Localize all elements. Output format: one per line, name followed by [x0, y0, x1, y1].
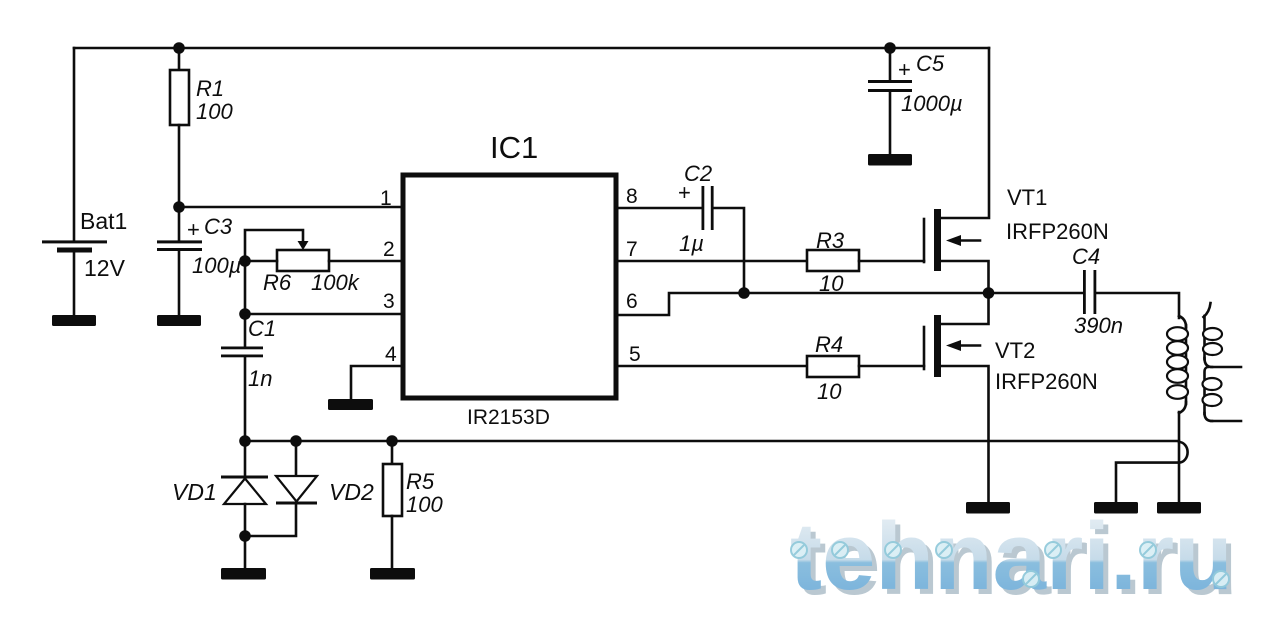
svg-text:1µ: 1µ [679, 231, 704, 256]
wire R6 left lead [245, 260, 277, 263]
capacitor C1 [221, 347, 263, 358]
R6 wiper arrowhead [298, 241, 309, 250]
wire C5 top lead [889, 48, 892, 81]
svg-text:1: 1 [380, 187, 392, 210]
wire R5 top lead [391, 441, 394, 464]
svg-text:100k: 100k [311, 270, 360, 295]
svg-text:IRFP260N: IRFP260N [1006, 219, 1109, 244]
svg-text:C3: C3 [204, 214, 233, 239]
capacitor C3 [157, 240, 202, 251]
wire C1 bottom lead [244, 357, 247, 441]
svg-text:100: 100 [196, 99, 233, 124]
wire secondary middle lead [1211, 366, 1241, 369]
watermark badges [791, 542, 1229, 587]
resistor R5 [383, 464, 402, 516]
ground C5 [868, 154, 912, 166]
svg-text:C4: C4 [1072, 244, 1100, 269]
wire R3 to VT1 gate [859, 260, 924, 263]
wire pin 7 [616, 260, 807, 263]
svg-text:C1: C1 [248, 316, 276, 341]
svg-text:VD1: VD1 [172, 479, 217, 505]
IC U1 IR2153D [403, 175, 616, 398]
node junction R1/C3/pin1 [173, 201, 185, 213]
svg-text:R3: R3 [816, 228, 845, 253]
transformer T1 secondary [1203, 303, 1223, 421]
svg-text:R5: R5 [406, 469, 435, 494]
svg-text:3: 3 [383, 290, 395, 313]
potentiometer R6 [277, 250, 329, 271]
capacitor C5 [868, 80, 912, 92]
svg-text:100µ: 100µ [192, 253, 241, 278]
node junction bus/VD2 [290, 435, 302, 447]
svg-text:5: 5 [629, 343, 641, 366]
ground R5 [370, 568, 415, 580]
wire vertical R6 to pin3/C1 [244, 261, 247, 347]
transistor Q1 VT1 [924, 209, 989, 293]
wire top supply rail [74, 47, 989, 50]
svg-text:C5: C5 [916, 51, 945, 76]
wire VD2 top lead [295, 441, 298, 476]
svg-text:10: 10 [817, 379, 842, 404]
svg-text:7: 7 [626, 238, 638, 261]
capacitor C4 [1083, 270, 1096, 314]
svg-text:R4: R4 [815, 332, 843, 357]
svg-text:4: 4 [385, 343, 397, 366]
wire pin 1 [179, 206, 403, 209]
wire VD1 top lead [244, 441, 247, 476]
wire bottom bus [245, 440, 1179, 443]
svg-text:12V: 12V [84, 255, 126, 281]
wire secondary bottom lead [1211, 420, 1241, 423]
wire pin 8 [616, 207, 702, 210]
diode VD1 [221, 476, 268, 505]
wire VD2 bottom lead [245, 504, 296, 536]
ground VD1 [221, 568, 266, 580]
node junction top rail / R1 [173, 42, 185, 54]
svg-text:VT1: VT1 [1007, 185, 1047, 210]
ground VT2 source [966, 502, 1010, 514]
svg-text:IRFP260N: IRFP260N [995, 369, 1098, 394]
wire ground branch left [1116, 463, 1179, 502]
wire transformer primary bottom to ground [1178, 412, 1181, 502]
ground branch bar [1094, 502, 1138, 514]
resistor R1 [170, 70, 189, 125]
svg-text:tehnari.ru: tehnari.ru [790, 503, 1233, 610]
node junction top rail / C5 [884, 42, 896, 54]
svg-text:VT2: VT2 [995, 338, 1035, 363]
wire VD1 bottom lead [244, 504, 247, 568]
resistor R3 [807, 250, 859, 271]
wire R1 bottom lead [178, 125, 181, 207]
wire left rail to battery [73, 48, 76, 241]
node junction VD1/VD2 bottom [239, 530, 251, 542]
capacitor C2 [702, 186, 714, 230]
node junction bus/C1/VD1 [239, 435, 251, 447]
battery Bat1 [42, 240, 107, 252]
wire pin 6 [616, 293, 1084, 315]
wire R6 wiper [245, 230, 303, 261]
wire C2 right to node [714, 208, 744, 293]
ground pin 4 [328, 399, 373, 410]
wire battery to ground [73, 252, 76, 315]
wire R4 to VT2 gate [859, 365, 924, 368]
svg-text:R6: R6 [263, 270, 292, 295]
svg-text:2: 2 [383, 238, 395, 261]
node junction C2/pin6 [738, 287, 750, 299]
svg-text:IC1: IC1 [490, 130, 538, 165]
wire right rail to VT1 drain [941, 48, 989, 218]
wire R5 bottom lead [391, 516, 394, 568]
svg-text:100: 100 [406, 492, 443, 517]
wire VT2 drain [941, 293, 989, 324]
resistor R4 [807, 356, 859, 377]
node junction R6/C3 net [239, 255, 251, 267]
svg-text:390n: 390n [1074, 313, 1123, 338]
node junction pin3/C1 [239, 308, 251, 320]
transformer T1 primary [1167, 316, 1188, 413]
diode VD2 [276, 476, 317, 505]
transistor Q2 VT2 [924, 315, 989, 502]
svg-text:VD2: VD2 [329, 479, 374, 505]
watermark tehnari.ru [790, 503, 1238, 615]
wire R1 top lead [178, 48, 181, 70]
ground battery [52, 315, 96, 326]
svg-text:6: 6 [626, 290, 638, 313]
wire C4 to transformer [1096, 293, 1179, 318]
wire C5 bottom lead [889, 92, 892, 154]
svg-text:8: 8 [626, 185, 638, 208]
svg-text:1000µ: 1000µ [901, 91, 963, 116]
svg-text:C2: C2 [684, 161, 712, 186]
svg-text:+: + [187, 217, 200, 242]
svg-text:1n: 1n [248, 366, 272, 391]
wire pin 4 [351, 366, 403, 399]
wire pin 3 [245, 313, 403, 316]
wire C3 top lead [178, 207, 181, 240]
wire C3 to ground [178, 251, 181, 315]
wire pin 2 [329, 260, 403, 263]
wire pin 5 [616, 365, 807, 368]
node junction half-bridge mid [983, 287, 995, 299]
svg-text:+: + [898, 57, 911, 82]
svg-text:Bat1: Bat1 [80, 208, 127, 234]
ground C3 [157, 315, 201, 326]
svg-text:R1: R1 [196, 76, 224, 101]
svg-text:IR2153D: IR2153D [467, 406, 550, 429]
wire bus hop to secondary-side ground branch [1179, 442, 1188, 463]
ground transformer primary [1157, 502, 1201, 514]
node junction bus/R5 [386, 435, 398, 447]
